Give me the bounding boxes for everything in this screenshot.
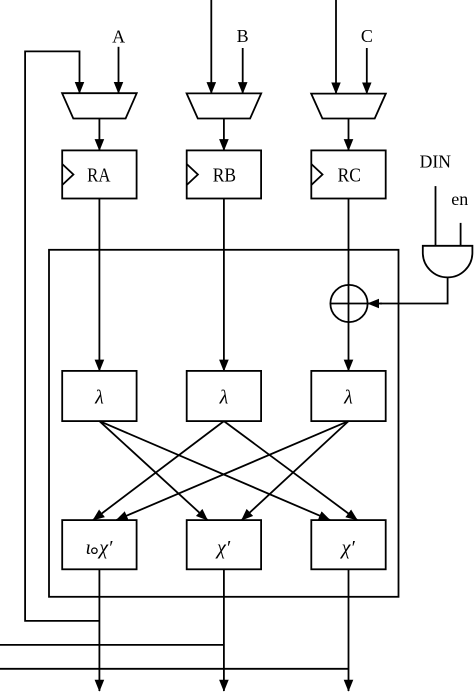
svg-text:RB: RB: [213, 164, 236, 186]
svg-text:RA: RA: [87, 164, 111, 186]
svg-text:B: B: [237, 26, 249, 46]
svg-text:A: A: [112, 27, 125, 47]
svg-text:C: C: [361, 26, 373, 46]
svg-text:ι: ι: [86, 537, 92, 559]
svg-text:χ′: χ′: [97, 537, 113, 559]
svg-text:λ: λ: [94, 386, 104, 408]
svg-text:RC: RC: [338, 164, 361, 186]
svg-text:DIN: DIN: [420, 151, 451, 171]
svg-text:en: en: [451, 189, 468, 209]
svg-text:λ: λ: [343, 386, 353, 408]
svg-text:χ′: χ′: [340, 537, 356, 559]
svg-text:χ′: χ′: [215, 537, 231, 559]
svg-text:λ: λ: [219, 386, 229, 408]
